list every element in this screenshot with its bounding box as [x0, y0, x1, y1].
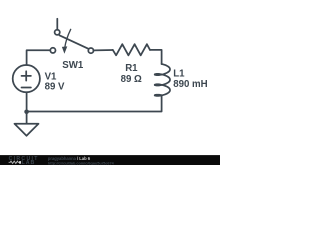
switch SW1 right terminal — [88, 48, 93, 53]
svg-text:89 Ω: 89 Ω — [121, 74, 142, 85]
resistor R1 zigzag — [113, 44, 150, 55]
wire: switch right terminal to resistor — [94, 49, 113, 51]
footer logo word LAB — [19, 161, 21, 164]
footer bar — [0, 155, 220, 165]
footer logo resistor glyph — [9, 161, 20, 163]
switch SW1 left terminal — [50, 48, 55, 53]
voltage source V1 circle — [13, 65, 40, 92]
svg-text:LAB: LAB — [22, 160, 36, 165]
wire: inductor bottom to junction — [27, 95, 162, 111]
svg-text:http://circuitlab.com/c/6gau5u: http://circuitlab.com/c/6gau5ur5e674 — [48, 161, 115, 165]
inductor L1 coil — [155, 64, 170, 96]
wire: V1 bottom to junction — [26, 92, 28, 111]
junction node dot — [24, 110, 29, 115]
svg-text:89 V: 89 V — [45, 81, 65, 92]
switch SW1 actuation arrow arc — [65, 29, 71, 47]
svg-text:R1: R1 — [125, 63, 138, 74]
switch arrowhead — [62, 46, 67, 53]
svg-text:SW1: SW1 — [62, 60, 84, 71]
ground stub wire — [26, 112, 28, 124]
wire: V1 top to switch left terminal — [27, 50, 50, 65]
ground symbol triangle — [15, 124, 39, 136]
switch SW1 pivot stub — [56, 19, 58, 30]
V1 plus sign — [22, 71, 31, 80]
switch SW1 pivot circle — [55, 30, 60, 35]
svg-text:890 mH: 890 mH — [173, 79, 207, 90]
V1 minus sign — [22, 87, 31, 89]
switch SW1 blade — [59, 35, 88, 49]
wire: resistor to inductor top — [150, 50, 162, 64]
